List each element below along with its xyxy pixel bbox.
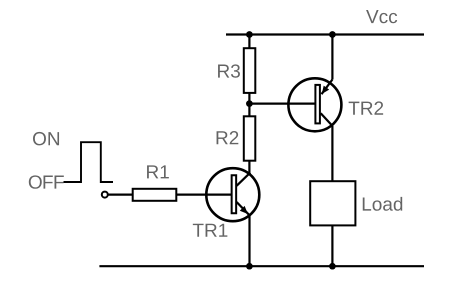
resistor R2 [244, 116, 256, 160]
wire TR1 emitter to ground rail [248, 215, 250, 266]
wire TR2 emitter to Vcc rail [331, 35, 333, 80]
wire Load to ground rail [331, 225, 333, 266]
node: TR1 emitter at ground rail [246, 263, 253, 270]
wire TR2 base from R3/R2 junction [249, 102, 315, 104]
wire R2 bottom to TR1 collector [248, 161, 250, 174]
wire R3 bottom to R2 top [248, 93, 250, 116]
node: R3/R2 junction to TR2 base [246, 100, 253, 107]
node: TR2 emitter at Vcc rail [329, 31, 336, 38]
input terminal (open circle) [102, 192, 108, 198]
label R2 [217, 131, 239, 144]
node: R3 column to Vcc rail [246, 31, 253, 38]
wire Vcc rail to R3 top [248, 35, 250, 49]
transistor TR2 (PNP) [288, 78, 341, 131]
label R1 [147, 165, 169, 178]
wire terminal to R1 [108, 194, 133, 196]
label Vcc [366, 10, 397, 23]
label ON [33, 132, 59, 145]
transistor TR1 (NPN) [206, 168, 259, 221]
label OFF [29, 175, 64, 188]
Vcc rail (top supply wire) [226, 33, 424, 35]
label R3 [218, 64, 240, 77]
label TR2 [349, 101, 384, 114]
label TR1 [193, 224, 228, 237]
resistor R3 [244, 48, 256, 93]
bottom ground rail wire [99, 265, 424, 267]
node: Load at ground rail [329, 263, 336, 270]
resistor R1 [133, 189, 177, 201]
Load box [310, 181, 355, 225]
label Load [363, 197, 402, 211]
wire R1 to TR1 base [176, 194, 231, 196]
input pulse waveform [64, 142, 114, 182]
wire TR2 collector to Load [331, 126, 333, 182]
